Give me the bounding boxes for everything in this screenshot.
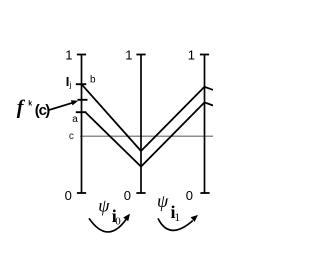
- arrow from f^k(c) to tick: [49, 103, 73, 110]
- middle axis bottom tick: [136, 192, 145, 194]
- svg-text:1: 1: [174, 212, 180, 224]
- svg-text:1: 1: [65, 48, 72, 63]
- svg-text:1: 1: [188, 48, 195, 63]
- lower-right wing past right axis: [205, 102, 214, 105]
- left axis: [81, 55, 83, 194]
- right axis: [204, 55, 206, 194]
- tick a on left axis: [76, 111, 87, 113]
- right axis top tick: [200, 54, 209, 56]
- arc arrow psi_i0: [89, 218, 126, 232]
- svg-text:c: c: [69, 131, 74, 142]
- upper-left diagonal from b to middle vertex: [82, 84, 142, 151]
- lower-right diagonal from middle vertex to right axis: [141, 102, 205, 166]
- middle axis top tick: [136, 54, 145, 56]
- middle axis: [140, 55, 142, 194]
- lower-left diagonal from a to middle vertex: [86, 112, 142, 166]
- upper-right wing past right axis: [205, 87, 214, 90]
- upper-right diagonal from middle vertex to right axis: [141, 87, 205, 151]
- svg-text:j: j: [69, 80, 72, 89]
- left axis bottom tick: [77, 192, 86, 194]
- svg-text:ψ: ψ: [157, 191, 169, 211]
- arc arrow psi_i1: [158, 218, 193, 230]
- svg-text:ψ: ψ: [98, 195, 110, 215]
- tick b on left axis: [76, 83, 87, 85]
- svg-text:0: 0: [65, 188, 72, 203]
- svg-text:1: 1: [125, 48, 132, 63]
- svg-text:0: 0: [186, 188, 193, 203]
- right axis bottom tick: [200, 192, 209, 194]
- tick f-k(c) on left axis: [78, 99, 88, 101]
- svg-text:b: b: [90, 75, 96, 86]
- left axis top tick: [77, 54, 86, 56]
- svg-text:a: a: [72, 114, 78, 125]
- gray horizontal line at level c: [80, 135, 213, 137]
- svg-text:k: k: [28, 101, 32, 108]
- svg-text:0: 0: [124, 188, 131, 203]
